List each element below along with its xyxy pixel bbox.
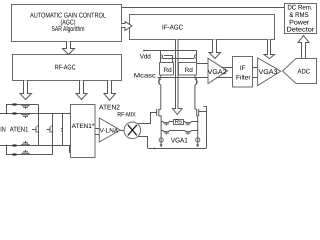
wire ATEN1' to V-LNA lower	[95, 134, 100, 136]
resistor Rd right	[179, 63, 197, 76]
block IF-AGC	[130, 15, 275, 40]
wire mixer lower output to VGA1 tail	[138, 137, 147, 148]
transistor shunt 1 gate	[32, 127, 36, 133]
svg-text:Detector: Detector	[286, 27, 315, 34]
amplifier V-LNA	[99, 118, 120, 142]
resistor squiggle row1 right	[184, 122, 199, 126]
transistor diff pair left M1	[157, 109, 162, 136]
block DC Rem and RMS power detector	[285, 4, 317, 34]
wire IN tee up to top rail	[7, 105, 39, 114]
wire diff pair right gate to boundary	[199, 111, 207, 113]
arrow IF-AGC to VGA2	[209, 40, 221, 59]
svg-text:Rd: Rd	[185, 67, 194, 74]
transistor switch on bottom rail	[21, 150, 30, 155]
svg-text:SAR Algorithm: SAR Algorithm	[52, 25, 85, 33]
converter ADC	[283, 59, 317, 84]
transistor cascode right	[195, 75, 197, 109]
resistor squiggle row1 left	[161, 122, 174, 126]
wire VGA2 to IF filter lower	[216, 77, 233, 79]
svg-text:ATEN1: ATEN1	[10, 127, 29, 134]
junction dot Vdd	[143, 50, 145, 52]
arrow AGC to IF-AGC	[122, 22, 132, 31]
arrow IF-AGC to VGA3	[264, 40, 275, 59]
resistor series wire3	[13, 144, 17, 146]
wire ATEN1' to V-LNA upper	[95, 128, 100, 130]
arrow AGC to RF-AGC	[63, 42, 75, 55]
wire stub to ATEN1' lower	[70, 146, 71, 153]
wire Mcasc gate line to VGA2	[158, 77, 209, 79]
junction dot VGA1 tail	[154, 148, 156, 150]
svg-text:DC Rem.: DC Rem.	[287, 5, 312, 12]
svg-text:Rs: Rs	[175, 120, 182, 126]
resistor series bottom rail	[13, 153, 17, 155]
block IF filter	[233, 57, 253, 88]
mixer RF-MIX	[124, 122, 141, 139]
transistor shunt 1 channel	[37, 105, 39, 146]
arrow ADC to DC detector	[298, 36, 309, 58]
svg-text:ATEN2: ATEN2	[99, 104, 120, 111]
transistor switch on wire3	[21, 141, 30, 146]
arrow RF-AGC to ATEN2	[104, 81, 116, 101]
transistor switch on top rail	[21, 105, 30, 110]
junction dot wire2 at box	[69, 113, 71, 115]
wire IF filter to VGA3 lower	[253, 77, 258, 79]
wire shunt 3	[61, 114, 63, 146]
svg-text:IF: IF	[240, 65, 246, 72]
transistor switch row2 left	[161, 131, 174, 135]
wire VGA2 upper input	[197, 63, 209, 65]
svg-text:Power: Power	[289, 19, 310, 26]
block AGC (SAR algorithm controller)	[12, 5, 122, 42]
svg-text:RF-MIX: RF-MIX	[117, 112, 136, 119]
svg-text:Rd: Rd	[164, 67, 173, 74]
arrow RF-AGC to ATEN1'	[76, 81, 87, 100]
svg-text:ATEN1*: ATEN1*	[72, 123, 95, 130]
svg-text:Vdd: Vdd	[140, 54, 151, 61]
resistor series top rail	[13, 103, 17, 105]
current source left	[159, 135, 163, 146]
svg-text:IF-AGC: IF-AGC	[162, 24, 183, 31]
resistor series wire2	[13, 112, 17, 114]
wire row2 middle	[173, 130, 183, 132]
wire IN tee down to bottom rail	[7, 146, 53, 155]
transistor cascode left	[159, 75, 161, 109]
wire V-LNA to mixer	[121, 130, 125, 132]
transistor switch row2 right	[184, 131, 199, 135]
transistor shunt 2 channel	[51, 114, 53, 155]
block ATEN1'	[71, 105, 96, 158]
svg-text:V-LNA: V-LNA	[100, 128, 119, 135]
arrow RF-AGC to ATEN1	[20, 81, 32, 100]
transistor PMOS load right	[195, 51, 197, 63]
node input IN wire minus	[0, 145, 71, 147]
amplifier VGA2	[208, 58, 228, 83]
svg-text:VGA1: VGA1	[171, 137, 188, 144]
transistor switch on wire2	[21, 114, 30, 119]
svg-text:RF-AGC: RF-AGC	[55, 65, 76, 72]
svg-text:ADC: ADC	[298, 69, 311, 76]
wire feedback from DC detector to AGC	[122, 7, 285, 9]
wire PMOS gate line	[163, 58, 195, 60]
current source right	[196, 135, 200, 146]
junction dot input plus	[6, 113, 8, 115]
svg-text:Filter: Filter	[236, 74, 251, 81]
block RF-AGC	[13, 55, 122, 81]
arrow IF-AGC to VGA1 (Rs control)	[173, 40, 183, 115]
junction dot wire3 at box	[69, 145, 71, 147]
amplifier VGA3	[258, 58, 281, 86]
wire IF filter to VGA3 upper	[253, 67, 258, 69]
wire Vdd rail	[144, 50, 197, 52]
svg-text:VGA2: VGA2	[208, 69, 227, 76]
transistor shunt 2 gate	[47, 127, 51, 133]
wire mixer upper output to VGA1 gate	[138, 113, 156, 124]
junction dot input minus	[6, 145, 8, 147]
wire VGA2 to IF filter upper	[221, 67, 233, 69]
node input IN wire plus	[0, 113, 71, 115]
transistor diff pair right M2	[195, 109, 199, 136]
resistor Rd left	[160, 63, 174, 76]
svg-text:IN: IN	[0, 127, 6, 134]
transistor PMOS load left	[161, 51, 163, 63]
svg-text:& RMS: & RMS	[289, 12, 309, 19]
wire VGA1 bias return boundary	[148, 107, 207, 149]
svg-text:VGA3: VGA3	[259, 69, 278, 76]
svg-text:Mcasc: Mcasc	[134, 73, 157, 80]
resistor Rs box	[174, 120, 184, 126]
wire gate bias stub	[164, 56, 173, 63]
